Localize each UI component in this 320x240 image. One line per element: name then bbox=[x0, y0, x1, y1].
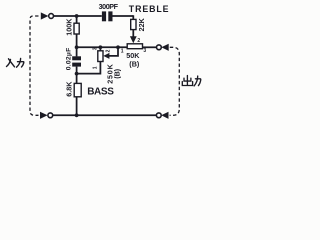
svg-text:22K: 22K bbox=[137, 17, 146, 31]
potentiometer BASS 250K(B) body bbox=[98, 51, 103, 62]
input jack top: circle terminal bbox=[49, 14, 54, 19]
wire: ground bus from input jack to output jack bbox=[53, 114, 157, 116]
wire: junction A down to 100K top bbox=[76, 16, 78, 23]
svg-text:BASS: BASS bbox=[87, 86, 114, 97]
junction node E (6.8K on ground bus) bbox=[75, 113, 79, 117]
wire: BASS pot wiper right and up to node D bbox=[109, 47, 118, 56]
svg-text:2: 2 bbox=[106, 49, 112, 52]
output jack top: circle terminal bbox=[157, 45, 162, 50]
output jack top: arrow bbox=[161, 44, 168, 51]
wire: TREBLE pot pin3 to output jack bbox=[143, 46, 157, 48]
junction node A (top wire / 100K) bbox=[75, 14, 79, 18]
input jack bottom: arrow bbox=[40, 112, 48, 119]
wire: capacitor C1 to corner above 22K bbox=[112, 15, 133, 17]
wire: junction A to capacitor C1 bbox=[77, 15, 102, 17]
potentiometer TREBLE 50K(B) body bbox=[127, 44, 142, 49]
output jack bottom: arrow bbox=[161, 112, 168, 119]
junction node (BASS pin3 on mid wire) bbox=[99, 45, 103, 49]
wire: node B to bass pin3 node to wiper node to TREBLE pot pin1 bbox=[77, 46, 128, 48]
wire: corner down to resistor 22K top bbox=[132, 15, 134, 19]
wire: top from input jack to junction A bbox=[54, 15, 77, 17]
shielded cable dashed run (input side) bbox=[30, 16, 39, 115]
svg-text:3: 3 bbox=[143, 48, 146, 54]
wire: node C down to 6.8K top bbox=[76, 74, 78, 84]
input jack bottom: circle terminal bbox=[48, 113, 53, 118]
svg-text:100K: 100K bbox=[65, 18, 74, 36]
svg-text:1: 1 bbox=[121, 48, 124, 54]
wire: 6.8K bottom to ground bus bbox=[76, 97, 78, 116]
output jack bottom: circle terminal bbox=[156, 113, 161, 118]
wire: capacitor C2 bottom to node C bbox=[76, 67, 78, 74]
svg-text:0.02µF: 0.02µF bbox=[65, 48, 72, 71]
resistor 100K body bbox=[74, 23, 79, 34]
label output (kanji) bbox=[182, 76, 200, 86]
resistor 22K body bbox=[131, 19, 136, 29]
svg-text:(B): (B) bbox=[112, 68, 121, 79]
svg-text:50K: 50K bbox=[126, 51, 140, 60]
wire: node C right and up to BASS pot pin1 bbox=[77, 61, 101, 73]
wire: 100K bottom to node B bbox=[76, 34, 78, 47]
svg-text:TREBLE: TREBLE bbox=[129, 4, 170, 14]
wire: BASS pot pin3 stub up to node bbox=[99, 47, 101, 51]
junction node D (BASS wiper on mid wire) bbox=[116, 45, 120, 49]
shielded cable dashed run (output side) bbox=[170, 47, 180, 115]
wire: node B down to capacitor C2 top bbox=[76, 47, 78, 56]
svg-text:2: 2 bbox=[137, 38, 140, 44]
label input (kanji) bbox=[7, 59, 24, 68]
resistor 6.8K body bbox=[74, 83, 81, 96]
capacitor C2 0.02uF plates bbox=[72, 56, 81, 66]
capacitor C1 300PF plates bbox=[102, 11, 113, 21]
svg-text:(B): (B) bbox=[129, 60, 140, 69]
BASS pot wiper arrow (pin 2) bbox=[103, 53, 109, 59]
svg-text:300PF: 300PF bbox=[99, 2, 119, 11]
TREBLE pot wiper arrow (pin 2) bbox=[130, 36, 137, 43]
junction node B (100K / C2 / mid wire) bbox=[75, 45, 79, 49]
svg-text:3: 3 bbox=[92, 47, 98, 50]
junction node C (C2 / 6.8K / bass pin1) bbox=[75, 72, 79, 76]
wire: 22K bottom to wiper arrow of TREBLE pot bbox=[132, 30, 134, 37]
input jack top: arrow bbox=[41, 12, 49, 19]
svg-text:1: 1 bbox=[92, 66, 98, 69]
svg-text:6.8K: 6.8K bbox=[64, 81, 73, 97]
